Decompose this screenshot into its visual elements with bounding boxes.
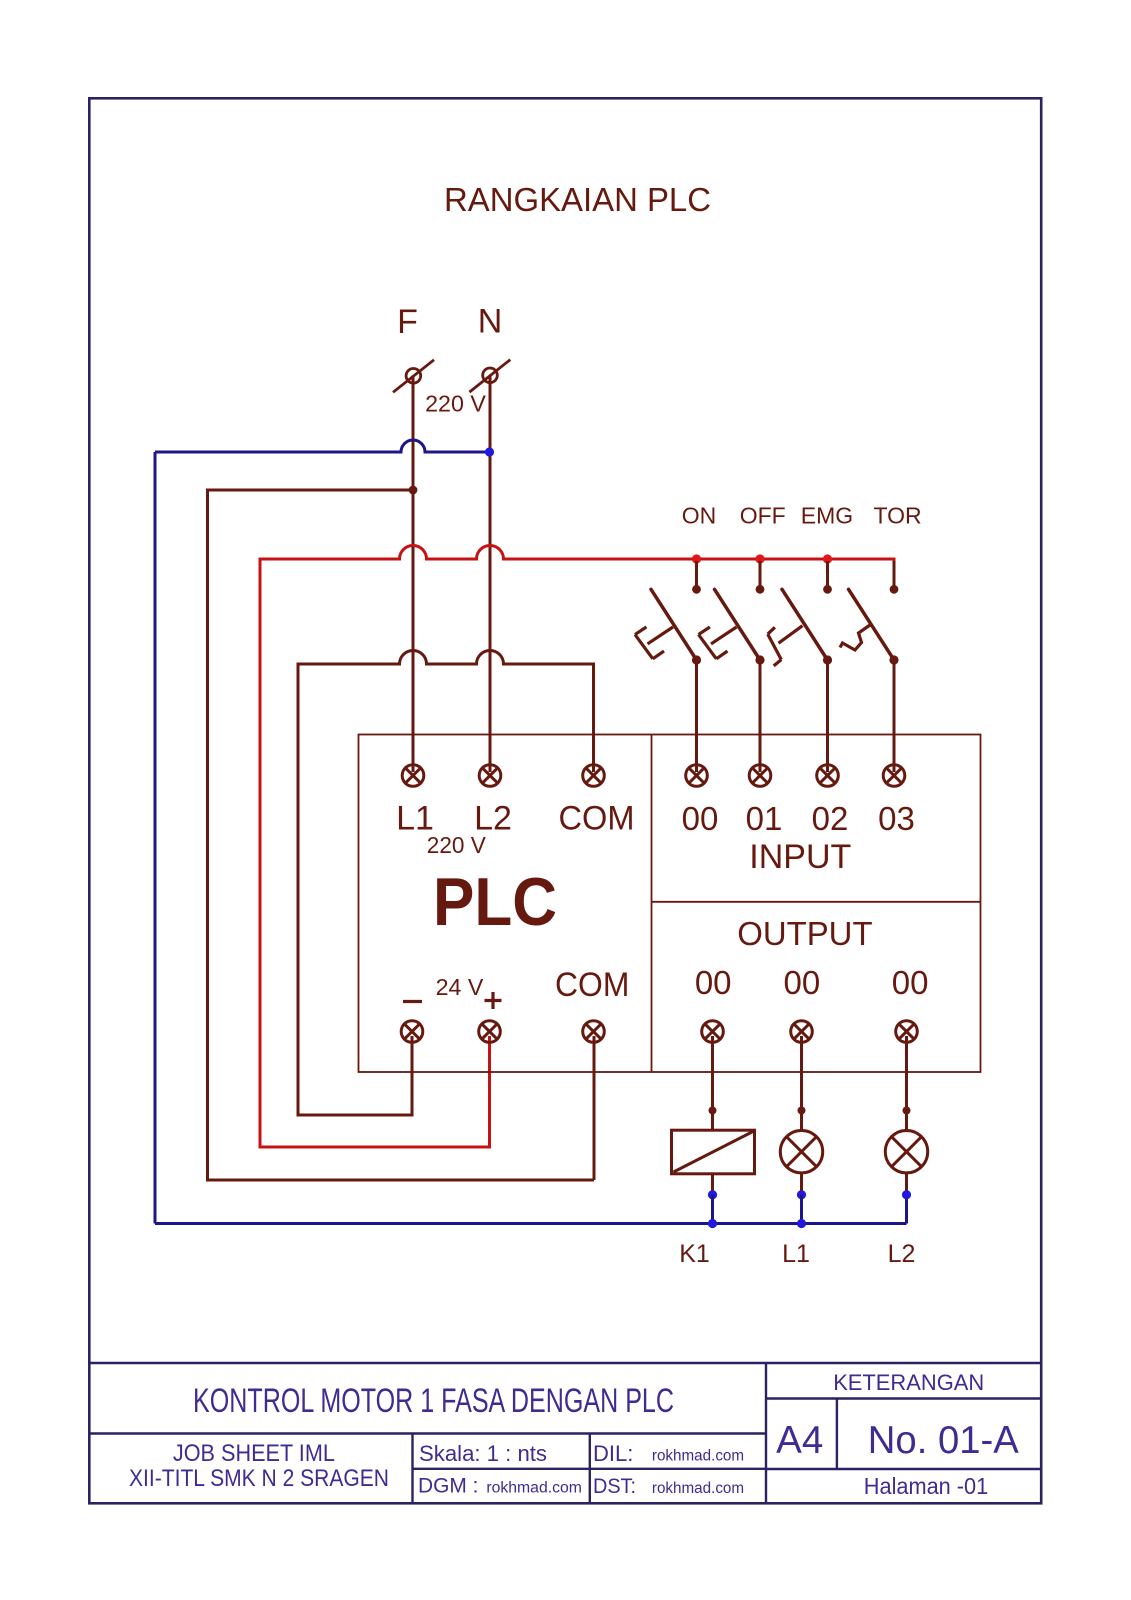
svg-text:rokhmad.com: rokhmad.com	[652, 1480, 744, 1497]
wire L2 to blue bus	[905, 1173, 908, 1193]
svg-text:L2: L2	[888, 1240, 916, 1268]
svg-text:KONTROL MOTOR 1 FASA DENGAN PL: KONTROL MOTOR 1 FASA DENGAN PLC	[193, 1382, 674, 1420]
relay coil K1	[672, 1130, 755, 1174]
svg-text:RANGKAIAN PLC: RANGKAIAN PLC	[444, 181, 711, 218]
PLC input/output section divider vertical	[651, 735, 653, 1073]
svg-text:00: 00	[892, 964, 929, 1001]
terminal input 01	[749, 765, 771, 787]
disconnect switch N	[469, 360, 510, 393]
svg-text:KETERANGAN: KETERANGAN	[833, 1370, 984, 1395]
svg-text:F: F	[397, 303, 418, 341]
junction red at ON	[692, 554, 701, 563]
wire K1 to blue bus	[711, 1174, 714, 1194]
junction on F wire	[409, 486, 418, 495]
wire stub red bus to pushbutton OFF switch	[759, 561, 762, 586]
svg-text:DST:: DST:	[593, 1475, 636, 1498]
svg-text:OUTPUT: OUTPUT	[737, 916, 872, 953]
terminal COM bottom	[583, 1021, 605, 1043]
pushbutton ON bottom terminal dot	[692, 655, 701, 664]
emergency stop EMG bottom terminal dot	[823, 655, 832, 664]
emergency stop EMG actuator	[768, 626, 803, 666]
wire blue L1 stub	[800, 1195, 803, 1224]
svg-text:EMG: EMG	[801, 503, 853, 529]
pushbutton OFF contact blade	[715, 589, 761, 660]
svg-text:K1: K1	[679, 1240, 710, 1268]
svg-text:COM: COM	[559, 800, 635, 838]
wire output to relay K1	[711, 1036, 714, 1131]
wire emergency stop EMG to PLC input	[826, 660, 829, 772]
wire F phase vertical	[412, 376, 415, 773]
lamp L2	[885, 1131, 927, 1173]
wire maroon 24V- return and COM line (hops over F and N)	[298, 651, 594, 1116]
svg-text:A4: A4	[776, 1419, 823, 1462]
node on L2 wire	[903, 1107, 911, 1115]
blue node L1 bottom	[797, 1190, 806, 1199]
emergency stop EMG contact blade	[782, 589, 828, 660]
lamp L1	[780, 1131, 822, 1173]
thermal overload contact TOR bottom terminal dot	[889, 655, 898, 664]
label plus	[485, 992, 502, 1009]
svg-text:ON: ON	[682, 503, 717, 529]
terminal input 02	[817, 765, 839, 787]
svg-text:Skala: 1 : nts: Skala: 1 : nts	[419, 1441, 547, 1466]
svg-text:01: 01	[746, 800, 783, 837]
svg-text:Halaman -01: Halaman -01	[864, 1473, 988, 1499]
wire L1 to blue bus	[800, 1173, 803, 1193]
svg-text:rokhmad.com: rokhmad.com	[652, 1448, 744, 1465]
pushbutton ON actuator	[635, 627, 673, 659]
svg-text:OFF: OFF	[740, 503, 786, 529]
title block lines	[89, 1363, 1041, 1504]
wire pushbutton OFF to PLC input	[759, 660, 762, 772]
svg-text:TOR: TOR	[874, 503, 922, 529]
svg-text:INPUT: INPUT	[749, 838, 851, 876]
junction blue bus L1	[797, 1219, 806, 1228]
wire stub red bus to thermal overload contact TOR switch	[893, 561, 896, 586]
junction blue bus K1	[708, 1219, 717, 1228]
pushbutton OFF top terminal dot	[756, 585, 765, 594]
terminal L2	[479, 765, 501, 787]
wire N neutral vertical	[489, 375, 492, 772]
svg-text:02: 02	[812, 800, 849, 837]
wire blue K1 stub	[711, 1195, 714, 1224]
border frame	[89, 98, 1041, 1503]
svg-text:220 V: 220 V	[427, 832, 487, 858]
junction red at OFF	[755, 554, 764, 563]
terminal input 03	[883, 765, 905, 787]
pushbutton OFF bottom terminal dot	[755, 655, 764, 664]
wire maroon from F junction to left	[208, 489, 414, 492]
pushbutton ON top terminal dot	[692, 585, 701, 594]
thermal overload contact TOR actuator	[840, 625, 870, 650]
svg-text:DIL:: DIL:	[593, 1441, 633, 1466]
svg-text:03: 03	[878, 800, 915, 837]
svg-text:XII-TITL SMK N 2 SRAGEN: XII-TITL SMK N 2 SRAGEN	[129, 1465, 389, 1492]
svg-text:L1: L1	[782, 1240, 810, 1268]
wire maroon riser to COM- terminal	[593, 1036, 596, 1180]
thermal overload contact TOR contact blade	[849, 589, 895, 660]
wire output to lamp L1	[800, 1036, 803, 1131]
node on K1 wire	[709, 1107, 717, 1115]
blue node L2 bottom	[902, 1190, 911, 1199]
label minus	[403, 1000, 422, 1003]
wire blue neutral horizontal with hop over F	[155, 440, 490, 452]
wire stub red bus to pushbutton ON switch	[695, 561, 698, 586]
svg-text:24 V: 24 V	[436, 974, 484, 1000]
svg-text:N: N	[478, 303, 503, 341]
pushbutton OFF actuator	[699, 627, 737, 659]
blue node K1 bottom	[708, 1190, 717, 1199]
wire blue riser to lamp L2	[905, 1193, 908, 1224]
terminal output L1	[791, 1021, 813, 1043]
wire red 24V+ to pushbutton bus (hops over F and N)	[260, 546, 894, 1148]
junction red at EMG	[823, 554, 832, 563]
disconnect switch F	[393, 360, 434, 393]
wire pushbutton ON to PLC input	[695, 660, 698, 772]
svg-text:rokhmad.com: rokhmad.com	[486, 1480, 582, 1497]
terminal 24V plus	[479, 1021, 501, 1043]
wire blue bottom bus	[155, 1222, 907, 1225]
terminal output L2	[896, 1021, 918, 1043]
wire maroon left vertical	[206, 489, 209, 1181]
PLC enclosure box	[359, 735, 981, 1073]
svg-text:00: 00	[784, 964, 821, 1001]
wire stub red bus to emergency stop EMG switch	[826, 561, 829, 586]
svg-text:00: 00	[695, 964, 732, 1001]
svg-text:COM: COM	[555, 966, 629, 1004]
emergency stop EMG top terminal dot	[823, 585, 832, 594]
terminal 24V minus	[401, 1021, 423, 1043]
svg-text:DGM :: DGM :	[418, 1475, 479, 1498]
terminal input 00	[686, 765, 708, 787]
pushbutton ON contact blade	[651, 589, 697, 660]
svg-text:No. 01-A: No. 01-A	[868, 1419, 1019, 1462]
wire blue left vertical	[154, 452, 157, 1224]
terminal COM top	[583, 765, 605, 787]
junction blue at N	[485, 447, 494, 456]
wire thermal overload contact TOR to PLC input	[893, 660, 896, 772]
svg-text:220 V: 220 V	[425, 391, 486, 417]
thermal overload contact TOR top terminal dot	[890, 585, 899, 594]
terminal output K1	[702, 1021, 724, 1043]
terminal L1	[402, 765, 424, 787]
svg-text:PLC: PLC	[433, 864, 557, 940]
wire maroon bottom horizontal	[206, 1179, 594, 1182]
wire output to lamp L2	[905, 1036, 908, 1131]
node on L1 wire	[798, 1107, 806, 1115]
PLC input/output section divider horizontal	[652, 901, 981, 903]
svg-text:JOB SHEET IML: JOB SHEET IML	[173, 1440, 335, 1467]
svg-text:00: 00	[682, 800, 719, 837]
